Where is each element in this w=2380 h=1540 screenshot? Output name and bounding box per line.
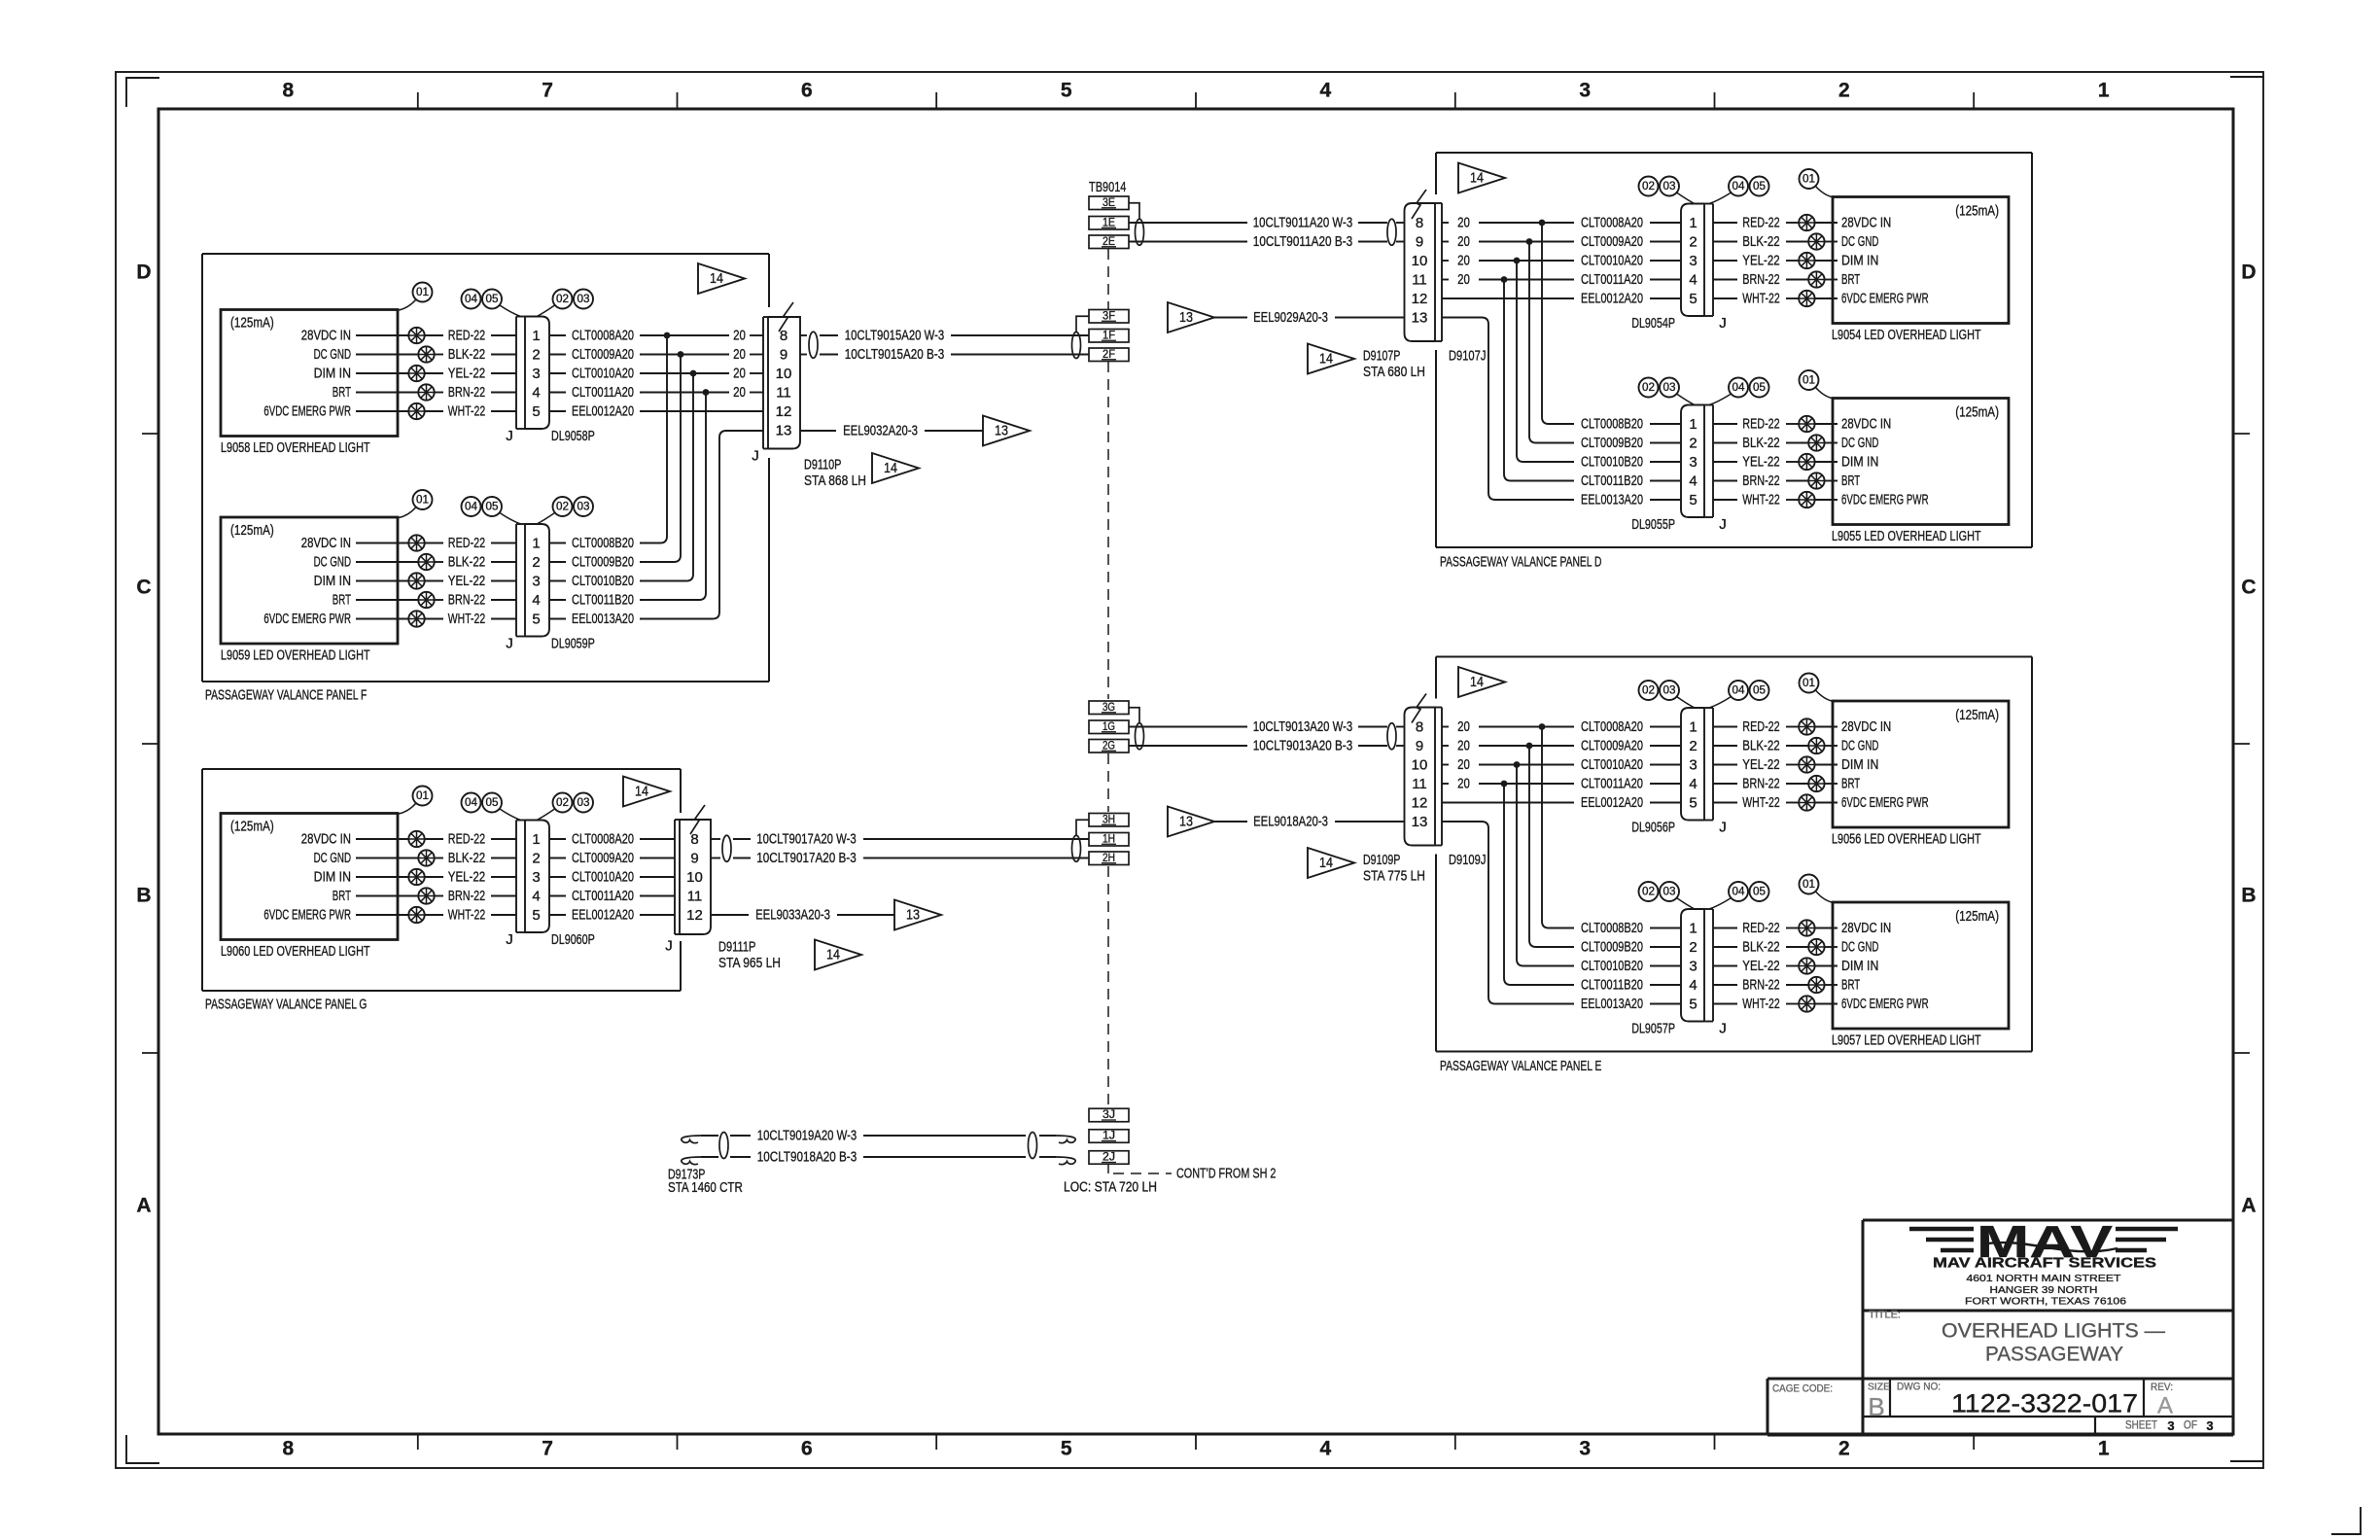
svg-text:9: 9 <box>690 851 698 867</box>
balloons 02 03 G-A <box>553 793 573 813</box>
svg-text:YEL-22: YEL-22 <box>1742 253 1779 269</box>
svg-text:4: 4 <box>1689 473 1697 490</box>
svg-text:J: J <box>665 938 673 955</box>
svg-text:(125mA): (125mA) <box>1955 908 1999 925</box>
svg-text:8: 8 <box>690 831 698 848</box>
svg-text:01: 01 <box>1802 678 1815 689</box>
svg-text:20: 20 <box>733 346 746 363</box>
svg-text:(125mA): (125mA) <box>1955 203 1999 220</box>
svg-text:DL9057P: DL9057P <box>1631 1021 1675 1037</box>
svg-text:OVERHEAD LIGHTS —: OVERHEAD LIGHTS — <box>1942 1320 2165 1343</box>
svg-text:6: 6 <box>801 1438 813 1460</box>
svg-text:DWG NO:: DWG NO: <box>1897 1382 1941 1393</box>
L9057 lamp terminal symbols <box>1799 920 1814 935</box>
flag 14 D9109P <box>1308 848 1354 878</box>
svg-text:02: 02 <box>1642 382 1655 394</box>
LED overhead light L9055 (125mA) box <box>1833 399 2009 525</box>
svg-text:CLT0011A20: CLT0011A20 <box>1581 271 1643 288</box>
svg-text:STA 868 LH: STA 868 LH <box>804 472 866 489</box>
L9060 pin stub wires <box>356 838 408 840</box>
flag 14 panel D <box>1458 163 1505 193</box>
balloons 02 03 D-A <box>1639 177 1659 196</box>
enclosure PASSAGEWAY VALANCE PANEL E box <box>1436 656 2032 658</box>
balloon 01 leader D-A <box>1816 187 1835 198</box>
balloon 04 leader D-A <box>1709 192 1732 204</box>
balloon 01 leader F-B <box>399 507 416 518</box>
svg-text:J: J <box>1719 1021 1727 1037</box>
svg-text:1122-3322-017: 1122-3322-017 <box>1951 1389 2138 1418</box>
connector D9173P wire end hooks <box>682 1136 701 1143</box>
L9057 internal wires colour-coded <box>1713 927 1737 929</box>
shield ovals D9110P output <box>809 332 818 358</box>
svg-text:28VDC IN: 28VDC IN <box>1841 215 1891 231</box>
svg-text:PASSAGEWAY VALANCE PANEL G: PASSAGEWAY VALANCE PANEL G <box>205 997 367 1013</box>
balloon 03 leader D-A <box>1677 192 1696 204</box>
svg-text:02: 02 <box>556 294 569 305</box>
svg-text:1: 1 <box>1689 215 1697 231</box>
svg-text:YEL-22: YEL-22 <box>448 573 485 589</box>
wire 3F jumper <box>1076 316 1089 332</box>
svg-text:28VDC IN: 28VDC IN <box>301 831 351 848</box>
LED overhead light L9060 (125mA) box <box>221 814 398 940</box>
svg-text:5: 5 <box>1689 291 1697 307</box>
svg-text:6VDC EMERG PWR: 6VDC EMERG PWR <box>1841 291 1929 307</box>
svg-text:03: 03 <box>1663 382 1676 394</box>
title block frame <box>1863 1219 2233 1222</box>
balloons 04 05 E-B <box>1729 882 1748 901</box>
svg-text:CLT0009A20: CLT0009A20 <box>572 850 634 866</box>
svg-text:BRN-22: BRN-22 <box>1742 977 1779 994</box>
balloon 02 leader F-A <box>537 305 555 317</box>
svg-text:04: 04 <box>1732 382 1746 394</box>
balloon 01 G-A <box>413 787 433 806</box>
svg-text:20: 20 <box>1457 215 1470 231</box>
svg-text:13: 13 <box>776 423 792 439</box>
svg-text:8: 8 <box>1416 215 1423 231</box>
svg-text:CLT0009A20: CLT0009A20 <box>1581 233 1643 250</box>
svg-text:3: 3 <box>1689 454 1697 471</box>
L9058 pin stub wires <box>356 334 408 336</box>
L9054 lamp terminal symbols <box>1799 215 1814 230</box>
svg-text:YEL-22: YEL-22 <box>448 366 485 382</box>
svg-text:2: 2 <box>1838 80 1850 102</box>
svg-text:WHT-22: WHT-22 <box>448 403 485 420</box>
svg-text:10: 10 <box>1412 757 1428 774</box>
svg-text:12: 12 <box>1412 291 1428 307</box>
wire 10CLT9017A20 B-3 <box>711 857 720 859</box>
terminal TB9014-3E <box>1089 196 1129 210</box>
connector D9111P shield break symbol <box>690 805 705 834</box>
svg-text:OF: OF <box>2184 1420 2197 1432</box>
svg-text:L9057 LED OVERHEAD LIGHT: L9057 LED OVERHEAD LIGHT <box>1832 1032 1981 1049</box>
svg-text:5: 5 <box>1689 492 1697 508</box>
terminal TB9014-3F <box>1089 310 1129 324</box>
svg-text:6VDC EMERG PWR: 6VDC EMERG PWR <box>263 611 351 627</box>
svg-text:13: 13 <box>995 424 1008 439</box>
svg-text:WHT-22: WHT-22 <box>448 907 485 924</box>
svg-text:J: J <box>1719 516 1727 533</box>
svg-text:J: J <box>506 428 513 444</box>
svg-text:CONT'D FROM SH 2: CONT'D FROM SH 2 <box>1176 1166 1276 1182</box>
wire 3E jumper <box>1129 203 1139 219</box>
svg-text:12: 12 <box>1412 795 1428 812</box>
svg-text:BRT: BRT <box>1841 271 1860 288</box>
wires D9109P to DL9056P with gauge labels <box>1442 726 1449 728</box>
svg-text:7: 7 <box>542 1438 553 1460</box>
svg-text:DIM IN: DIM IN <box>314 869 351 886</box>
svg-text:9: 9 <box>780 347 787 364</box>
svg-text:CLT0010B20: CLT0010B20 <box>1581 958 1643 974</box>
svg-text:DC GND: DC GND <box>314 346 352 363</box>
svg-text:28VDC IN: 28VDC IN <box>301 535 351 551</box>
svg-text:EEL0012A20: EEL0012A20 <box>1581 794 1643 811</box>
svg-text:10: 10 <box>686 869 703 886</box>
svg-text:01: 01 <box>1802 879 1815 891</box>
wires DL9059P branch taps <box>549 542 566 544</box>
terminal TB9014-1G <box>1089 720 1129 734</box>
svg-text:DL9055P: DL9055P <box>1631 516 1675 533</box>
balloon 01 leader E-B <box>1816 892 1835 903</box>
svg-text:6: 6 <box>801 80 813 102</box>
company logo MAV <box>1909 1227 1974 1232</box>
svg-text:L9059 LED OVERHEAD LIGHT: L9059 LED OVERHEAD LIGHT <box>221 647 370 664</box>
svg-text:3: 3 <box>532 574 540 590</box>
flag 14 D9107P <box>1308 344 1354 374</box>
svg-text:CLT0011A20: CLT0011A20 <box>572 888 634 904</box>
connector D9107P shield break symbol <box>1412 190 1426 219</box>
svg-text:01: 01 <box>1802 174 1815 186</box>
svg-text:YEL-22: YEL-22 <box>1742 756 1779 773</box>
svg-text:14: 14 <box>826 948 840 963</box>
shield oval TB9014 H <box>1072 835 1081 861</box>
wire 1G to D9109P <box>1129 726 1247 728</box>
wire 10CLT9015A20 B-3 <box>800 354 807 356</box>
svg-text:05: 05 <box>1753 887 1766 898</box>
svg-text:13: 13 <box>1412 814 1428 830</box>
svg-text:3: 3 <box>1689 757 1697 774</box>
svg-text:TB9014: TB9014 <box>1089 179 1126 195</box>
svg-text:8: 8 <box>780 328 787 344</box>
svg-text:20: 20 <box>1457 253 1470 269</box>
svg-text:02: 02 <box>1642 181 1655 192</box>
svg-text:05: 05 <box>486 502 499 513</box>
L9057 pin stub wires <box>1815 927 1837 929</box>
flag 14 panel F <box>698 263 745 294</box>
shield oval D9173P <box>719 1133 728 1159</box>
zone ticks left <box>142 433 158 435</box>
corner mark bottom-left <box>126 1435 159 1463</box>
svg-text:05: 05 <box>1753 685 1766 697</box>
svg-text:20: 20 <box>1457 233 1470 250</box>
svg-text:05: 05 <box>1753 181 1766 192</box>
svg-text:12: 12 <box>776 403 792 420</box>
wire 2G to D9109P <box>1129 745 1247 747</box>
balloons 04 05 F-B <box>462 497 481 516</box>
svg-text:2: 2 <box>1689 234 1697 251</box>
svg-text:CLT0010A20: CLT0010A20 <box>572 869 634 886</box>
svg-text:4: 4 <box>1320 80 1332 102</box>
svg-text:B: B <box>136 885 151 907</box>
wire 10CLT9018A20 B-3 <box>701 1156 718 1158</box>
flag 14 D9110P <box>872 453 919 483</box>
svg-text:DL9056P: DL9056P <box>1631 820 1675 836</box>
L9056 pin stub wires <box>1815 726 1837 728</box>
svg-text:5: 5 <box>1061 80 1072 102</box>
terminal TB9014-3H <box>1089 814 1129 827</box>
svg-text:D9107P: D9107P <box>1363 348 1400 365</box>
svg-text:CLT0010B20: CLT0010B20 <box>1581 454 1643 471</box>
svg-text:BRT: BRT <box>332 888 351 904</box>
svg-text:CLT0010A20: CLT0010A20 <box>1581 756 1643 773</box>
terminal TB9014-1E <box>1089 217 1129 230</box>
svg-text:MAV AIRCRAFT SERVICES: MAV AIRCRAFT SERVICES <box>1933 1256 2156 1272</box>
L9055 lamp terminal symbols <box>1799 416 1814 432</box>
svg-text:EEL0013A20: EEL0013A20 <box>1581 492 1643 508</box>
balloon 04 leader E-A <box>1709 697 1732 709</box>
svg-text:02: 02 <box>1642 887 1655 898</box>
balloon 02 leader F-B <box>537 513 555 525</box>
svg-text:STA 680 LH: STA 680 LH <box>1363 364 1425 380</box>
svg-text:14: 14 <box>884 461 897 476</box>
svg-text:(125mA): (125mA) <box>230 315 274 332</box>
wire 3H jumper <box>1076 820 1089 835</box>
svg-text:(125mA): (125mA) <box>1955 404 1999 421</box>
wire EEL9033A20-3 from D9111P pin 12 <box>711 914 749 916</box>
svg-text:DC GND: DC GND <box>1841 738 1879 754</box>
svg-text:J: J <box>752 448 759 465</box>
junction dots panel F <box>664 332 671 339</box>
svg-text:11: 11 <box>1412 272 1427 289</box>
svg-text:5: 5 <box>1689 795 1697 812</box>
svg-text:BRT: BRT <box>1841 776 1860 792</box>
svg-text:L9060 LED OVERHEAD LIGHT: L9060 LED OVERHEAD LIGHT <box>221 943 370 960</box>
svg-text:CLT0009B20: CLT0009B20 <box>1581 939 1643 956</box>
svg-text:WHT-22: WHT-22 <box>1742 492 1779 508</box>
svg-text:YEL-22: YEL-22 <box>1742 454 1779 471</box>
svg-text:11: 11 <box>776 385 791 402</box>
svg-text:5: 5 <box>532 907 540 924</box>
svg-text:04: 04 <box>465 294 478 305</box>
svg-text:3: 3 <box>1689 253 1697 269</box>
svg-text:11: 11 <box>687 889 703 905</box>
flag 14 D9111P <box>815 940 861 970</box>
corner mark sheet bottom-right <box>2331 1507 2361 1534</box>
svg-text:3: 3 <box>2206 1418 2213 1433</box>
svg-text:HANGER 39 NORTH: HANGER 39 NORTH <box>1990 1284 2098 1296</box>
balloons 02 03 E-A <box>1639 681 1659 700</box>
connector D9109P body <box>1405 708 1436 846</box>
svg-text:12: 12 <box>686 907 703 924</box>
svg-text:DL9059P: DL9059P <box>551 636 595 652</box>
svg-text:J: J <box>506 636 513 652</box>
balloons 02 03 D-B <box>1639 378 1659 398</box>
svg-text:PASSAGEWAY VALANCE PANEL D: PASSAGEWAY VALANCE PANEL D <box>1440 554 1602 571</box>
svg-text:D: D <box>136 262 151 284</box>
svg-text:13: 13 <box>1179 310 1193 326</box>
corner mark top-right <box>2230 76 2263 78</box>
balloon 05 leader F-A <box>500 305 521 317</box>
svg-text:28VDC IN: 28VDC IN <box>301 328 351 344</box>
svg-text:03: 03 <box>577 502 590 513</box>
svg-text:6VDC EMERG PWR: 6VDC EMERG PWR <box>1841 996 1929 1012</box>
svg-text:20: 20 <box>1457 738 1470 754</box>
svg-text:1: 1 <box>532 831 540 848</box>
svg-text:02: 02 <box>556 797 569 809</box>
LED overhead light L9057 (125mA) box <box>1833 902 2009 1029</box>
balloon 03 leader D-B <box>1677 394 1696 405</box>
svg-text:RED-22: RED-22 <box>448 328 485 344</box>
svg-text:DC GND: DC GND <box>314 850 352 866</box>
svg-text:CLT0008A20: CLT0008A20 <box>1581 215 1643 231</box>
svg-text:CLT0009B20: CLT0009B20 <box>572 554 634 571</box>
svg-text:B: B <box>1868 1392 1884 1421</box>
svg-text:4: 4 <box>1689 776 1697 792</box>
svg-text:PASSAGEWAY VALANCE PANEL E: PASSAGEWAY VALANCE PANEL E <box>1440 1058 1601 1074</box>
shield oval TB9014 F <box>1072 332 1081 359</box>
shield oval TB9014 J side <box>1029 1133 1037 1159</box>
svg-text:14: 14 <box>710 271 723 287</box>
svg-text:STA 1460 CTR: STA 1460 CTR <box>668 1179 743 1196</box>
terminal TB9014-1F <box>1089 330 1129 343</box>
svg-text:D: D <box>2241 262 2256 284</box>
svg-text:BRT: BRT <box>332 592 351 609</box>
svg-text:RED-22: RED-22 <box>1742 416 1779 433</box>
svg-text:A: A <box>136 1195 151 1217</box>
svg-text:CLT0008B20: CLT0008B20 <box>1581 416 1643 433</box>
svg-text:10CLT9017A20 B-3: 10CLT9017A20 B-3 <box>756 850 856 866</box>
junction dots panel E <box>1539 723 1546 730</box>
svg-text:J: J <box>1719 820 1727 836</box>
svg-text:WHT-22: WHT-22 <box>1742 291 1779 307</box>
svg-text:10CLT9011A20 W-3: 10CLT9011A20 W-3 <box>1253 215 1352 231</box>
svg-text:14: 14 <box>635 785 648 800</box>
svg-text:20: 20 <box>733 328 746 344</box>
svg-text:REV:: REV: <box>2151 1382 2173 1393</box>
svg-text:DC GND: DC GND <box>1841 435 1879 451</box>
svg-text:WHT-22: WHT-22 <box>1742 996 1779 1012</box>
svg-text:DC GND: DC GND <box>1841 939 1879 956</box>
terminal TB9014-2G <box>1089 740 1129 753</box>
svg-text:10CLT9015A20 B-3: 10CLT9015A20 B-3 <box>845 346 944 363</box>
svg-text:6VDC EMERG PWR: 6VDC EMERG PWR <box>263 403 351 420</box>
shield oval TB9014 G <box>1136 723 1144 750</box>
svg-text:3: 3 <box>1689 959 1697 975</box>
L9060 lamp terminal symbols <box>408 831 424 847</box>
terminal TB9014-2J <box>1089 1151 1129 1165</box>
svg-text:(125mA): (125mA) <box>230 522 274 539</box>
svg-text:28VDC IN: 28VDC IN <box>1841 920 1891 936</box>
svg-text:BLK-22: BLK-22 <box>448 554 485 571</box>
svg-text:8: 8 <box>283 1438 295 1460</box>
L9055 internal wires colour-coded <box>1713 423 1737 425</box>
svg-text:2: 2 <box>1689 436 1697 452</box>
wire 1E to D9107P <box>1129 222 1247 224</box>
svg-text:5: 5 <box>532 403 540 420</box>
svg-text:RED-22: RED-22 <box>448 831 485 848</box>
svg-text:5: 5 <box>1689 997 1697 1013</box>
svg-text:BRT: BRT <box>1841 472 1860 489</box>
svg-text:SHEET: SHEET <box>2125 1420 2157 1432</box>
svg-text:CLT0008A20: CLT0008A20 <box>1581 718 1643 735</box>
dashed line to CONT D FROM SH 2 <box>1113 1172 1172 1174</box>
svg-text:1: 1 <box>2098 80 2110 102</box>
svg-text:EEL9029A20-3: EEL9029A20-3 <box>1253 309 1328 326</box>
flag 13 EEL9018A20-3 <box>1168 807 1214 837</box>
LED overhead light L9054 (125mA) box <box>1833 197 2009 324</box>
svg-text:04: 04 <box>1732 685 1746 697</box>
svg-text:10CLT9015A20 W-3: 10CLT9015A20 W-3 <box>845 328 944 344</box>
svg-text:CLT0011B20: CLT0011B20 <box>1581 977 1643 994</box>
svg-text:RED-22: RED-22 <box>1742 718 1779 735</box>
svg-text:BRN-22: BRN-22 <box>448 592 485 609</box>
svg-text:BRT: BRT <box>1841 977 1860 994</box>
svg-text:4: 4 <box>532 889 540 905</box>
balloons 04 05 G-A <box>462 793 481 813</box>
svg-text:RED-22: RED-22 <box>1742 920 1779 936</box>
svg-text:02: 02 <box>556 502 569 513</box>
svg-text:20: 20 <box>1457 271 1470 288</box>
svg-text:10CLT9013A20 W-3: 10CLT9013A20 W-3 <box>1253 718 1352 735</box>
svg-text:4: 4 <box>1689 977 1697 994</box>
svg-text:03: 03 <box>1663 685 1676 697</box>
svg-text:5: 5 <box>1061 1438 1072 1460</box>
wires DL9060P to D9111P <box>549 838 566 840</box>
svg-text:28VDC IN: 28VDC IN <box>1841 718 1891 735</box>
svg-text:13: 13 <box>1412 310 1428 327</box>
svg-text:CLT0011A20: CLT0011A20 <box>572 384 634 401</box>
svg-text:14: 14 <box>1319 352 1333 367</box>
svg-text:EEL0012A20: EEL0012A20 <box>572 907 634 924</box>
svg-text:DL9060P: DL9060P <box>551 931 595 948</box>
junction dots panel D <box>1539 220 1546 227</box>
svg-text:05: 05 <box>486 797 499 809</box>
svg-text:DIM IN: DIM IN <box>1841 253 1878 269</box>
svg-text:1: 1 <box>1689 921 1697 937</box>
svg-text:11: 11 <box>1412 776 1427 792</box>
svg-text:4: 4 <box>532 592 540 609</box>
flag 14 panel G <box>623 777 670 807</box>
svg-text:DC GND: DC GND <box>1841 233 1879 250</box>
svg-text:PASSAGEWAY: PASSAGEWAY <box>1985 1344 2123 1366</box>
connector DL9059P body <box>515 524 517 637</box>
svg-text:BRN-22: BRN-22 <box>1742 472 1779 489</box>
terminal TB9014-3G <box>1089 701 1129 715</box>
svg-text:RED-22: RED-22 <box>448 535 485 551</box>
svg-text:CLT0008A20: CLT0008A20 <box>572 831 634 848</box>
corner mark top-left <box>126 78 159 107</box>
svg-text:J: J <box>506 931 513 948</box>
svg-text:DL9058P: DL9058P <box>551 428 595 444</box>
svg-text:10CLT9013A20 B-3: 10CLT9013A20 B-3 <box>1253 738 1352 754</box>
enclosure PASSAGEWAY VALANCE PANEL G box <box>202 768 681 770</box>
balloon 05 leader G-A <box>500 809 521 821</box>
balloon 03 leader E-B <box>1677 898 1696 910</box>
svg-text:6VDC EMERG PWR: 6VDC EMERG PWR <box>1841 794 1929 811</box>
svg-text:10: 10 <box>776 366 792 382</box>
svg-text:02: 02 <box>1642 685 1655 697</box>
zone ticks top <box>417 92 419 109</box>
svg-text:3: 3 <box>1579 80 1591 102</box>
svg-text:BLK-22: BLK-22 <box>1742 738 1779 754</box>
connector DL9058P body <box>515 317 517 430</box>
svg-text:CLT0008B20: CLT0008B20 <box>1581 920 1643 936</box>
svg-text:3: 3 <box>532 366 540 382</box>
svg-text:CLT0010B20: CLT0010B20 <box>572 573 634 589</box>
svg-text:28VDC IN: 28VDC IN <box>1841 416 1891 433</box>
connector D9109P shield break symbol <box>1412 694 1426 723</box>
balloons 04 05 F-A <box>462 290 481 309</box>
svg-text:4601 NORTH MAIN STREET: 4601 NORTH MAIN STREET <box>1967 1273 2122 1284</box>
